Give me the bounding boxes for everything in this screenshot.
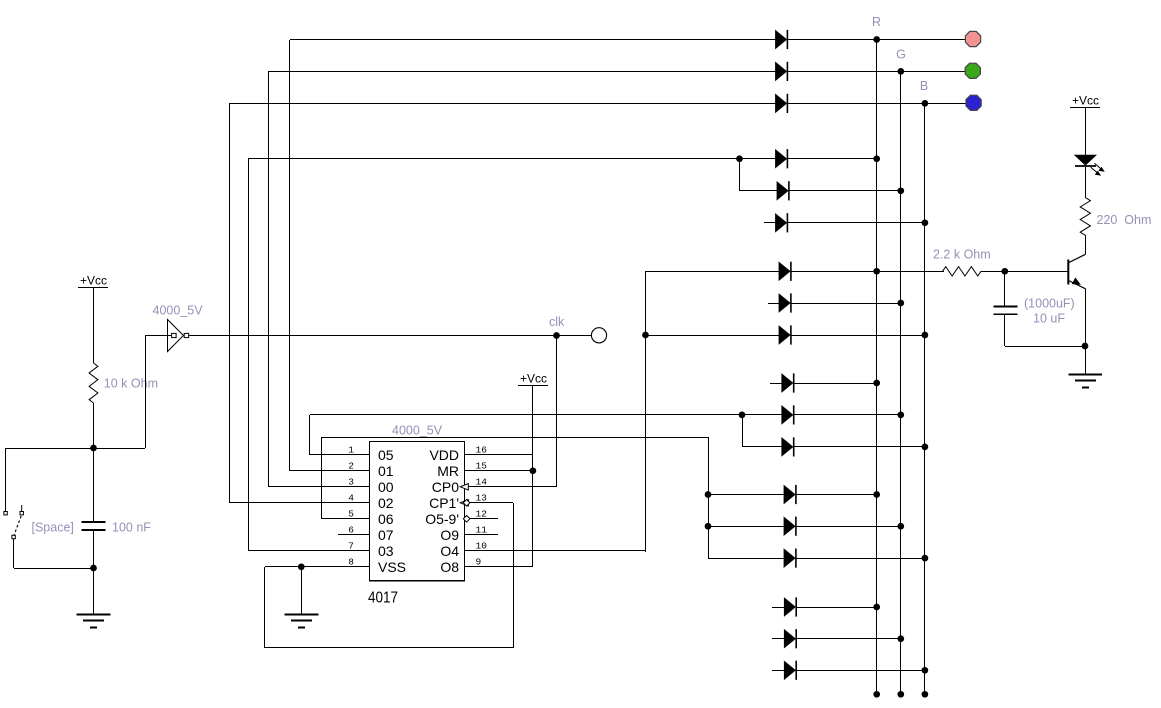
pin 12 O5-9 diamond (463, 516, 470, 523)
svg-text:CP1': CP1' (429, 495, 459, 511)
pin 15 stub (MR) (437, 461, 533, 480)
pin 10 stub (O4) (440, 541, 646, 560)
svg-text:7: 7 (348, 541, 354, 552)
node bus G junction (897, 691, 904, 698)
wire bus R vertical (876, 40, 878, 694)
diode D16 (784, 597, 796, 616)
svg-text:07: 07 (378, 527, 394, 543)
ground (4017 VSS) (285, 615, 319, 628)
svg-text:4: 4 (348, 493, 354, 504)
svg-text:CP0: CP0 (432, 479, 459, 495)
node VSS ground junction (298, 563, 305, 614)
svg-text:4000_5V: 4000_5V (153, 304, 204, 318)
node bus G junction (897, 68, 904, 75)
wire diode D16 anode tail (772, 607, 784, 609)
node A (RC junction) (90, 445, 97, 452)
svg-text:2.2 k Ohm: 2.2 k Ohm (933, 248, 991, 262)
clk open terminal (591, 328, 606, 343)
ground (emitter) (1069, 375, 1103, 388)
node bus R junction (873, 268, 880, 275)
diode D14 (784, 517, 796, 536)
wire diode D14 cathode to bus (796, 526, 901, 528)
svg-text:06: 06 (378, 511, 394, 527)
node bus B junction (922, 691, 929, 698)
node row14 branch (705, 523, 784, 530)
node MR junction (pin 15) (530, 467, 537, 474)
wire switch to node B (14, 539, 95, 569)
svg-text:+Vcc: +Vcc (520, 372, 547, 386)
wire node A to switch (6, 448, 95, 512)
node row4 branch (736, 155, 777, 191)
svg-text:10 k Ohm: 10 k Ohm (104, 377, 158, 391)
wire diode D13 cathode to bus (796, 494, 877, 496)
svg-text:220 Ohm: 220 Ohm (1097, 213, 1152, 227)
svg-text:8: 8 (348, 557, 354, 568)
wire clk to CP0 (pin 14) (556, 336, 558, 487)
svg-text:VSS: VSS (378, 559, 406, 575)
wire O0 bus: pin 3 to diode row 2 (268, 71, 776, 487)
terminal R (pink LED output) (965, 31, 980, 46)
node base junction (1001, 268, 1008, 275)
switch S1 [Space] (4, 505, 74, 539)
pin 1 stub (05) (338, 445, 394, 464)
LED D19 (1075, 155, 1104, 175)
diode D7 (779, 262, 791, 281)
wire diode D4 cathode to bus (788, 158, 877, 160)
pin 7 stub (03) (338, 541, 394, 560)
diode D18 (784, 661, 796, 680)
svg-text:11: 11 (476, 525, 488, 536)
node bus B junction (922, 332, 929, 339)
terminal B (blue LED output) (966, 95, 981, 110)
pin 2 stub (01) (338, 461, 394, 480)
svg-text:4017: 4017 (368, 590, 398, 607)
diode D5 (777, 181, 789, 200)
node bus B junction (922, 555, 929, 562)
diode D11 (782, 405, 794, 424)
pin 3 stub (00) (338, 477, 394, 496)
diode D17 (784, 629, 796, 648)
svg-text:MR: MR (437, 463, 459, 479)
pin 8 stub (VSS) (338, 557, 406, 576)
capacitor C2 10 uF (994, 271, 1086, 347)
power +Vcc (left) (78, 274, 108, 364)
svg-text:B: B (920, 79, 928, 93)
wire R2 to base node (981, 271, 1005, 273)
wire diode D8 cathode to bus (791, 303, 901, 305)
wire diode D10 anode tail (770, 383, 782, 385)
pin 16 stub (VDD) (429, 445, 533, 464)
wire diode D16 cathode to bus (797, 607, 877, 609)
svg-text:VDD: VDD (429, 447, 459, 463)
svg-text:O4: O4 (440, 543, 459, 559)
wire O5 route: pin 1 to diode row 11 (310, 415, 783, 456)
wire diode D17 cathode to bus (797, 638, 901, 640)
node bus B junction (922, 667, 929, 674)
diode D12 (782, 437, 794, 456)
wire diode D17 anode tail (772, 638, 784, 640)
svg-text:O8: O8 (440, 559, 459, 575)
node bus R junction (873, 491, 880, 498)
svg-text:00: 00 (378, 479, 394, 495)
svg-text:clk: clk (549, 315, 565, 329)
power +Vcc (4017 VDD) (518, 372, 548, 568)
capacitor C1 100 nF (82, 448, 152, 568)
svg-text:10 uF: 10 uF (1033, 312, 1065, 326)
node E (emitter/ground junction) (1082, 343, 1089, 374)
svg-text:5: 5 (348, 509, 354, 520)
diode D2 (776, 62, 788, 81)
pin 13 CP1 clock-input arrow + diamond (460, 500, 470, 507)
diode D10 (782, 373, 794, 392)
wire diode D18 cathode to bus (797, 670, 925, 672)
pin 5 stub (06) (338, 509, 394, 528)
node row11 branch (739, 412, 782, 447)
wire diode D9 cathode to bus (791, 335, 925, 337)
svg-text:O5-9': O5-9' (425, 511, 459, 527)
diode D6 (776, 213, 788, 232)
node row9 branch (642, 332, 779, 339)
svg-text:(1000uF): (1000uF) (1024, 297, 1075, 311)
wire node A to inverter input (94, 336, 172, 449)
pin 11 stub (O9) (440, 525, 498, 544)
wire Q1 collector to R3 (1085, 235, 1087, 254)
node bus G junction (897, 523, 904, 530)
pin 13 stub (CP1') (429, 493, 513, 512)
pin 6 stub (07) (338, 525, 394, 544)
wire diode D12 cathode to bus (794, 446, 925, 448)
node bus B junction (922, 100, 929, 107)
wire diode D5 cathode to bus (789, 190, 901, 192)
svg-text:4000_5V: 4000_5V (392, 424, 443, 438)
diode D9 (779, 325, 791, 344)
wire R3 to LED cathode (1085, 167, 1087, 198)
pin 9 stub (O8) (440, 557, 533, 576)
node bus G junction (897, 300, 904, 307)
node bus R junction (873, 36, 880, 43)
wire clk net: gate output to clk terminal (189, 335, 591, 337)
svg-text:[Space]: [Space] (32, 521, 74, 535)
pin 4 stub (02) (338, 493, 394, 512)
svg-text:01: 01 (378, 463, 394, 479)
svg-text:13: 13 (476, 493, 488, 504)
wire bus B vertical (924, 103, 926, 694)
op-amp/inverter U2 4000_5V (schmitt buffer) (153, 304, 204, 352)
svg-text:9: 9 (476, 557, 482, 568)
wire O3 bus: pin 7 to diode row 4 (248, 159, 776, 552)
svg-text:100 nF: 100 nF (112, 521, 151, 535)
transistor Q1 NPN (1068, 254, 1085, 288)
wire diode D18 anode tail (772, 670, 784, 672)
svg-text:15: 15 (476, 461, 488, 472)
pin 14 CP0 clock-input arrow (460, 484, 468, 490)
IC U1 4017 decade counter body (368, 424, 465, 607)
node clk junction (549, 315, 565, 339)
wire +Vcc to LED anode (1085, 108, 1087, 155)
svg-text:05: 05 (378, 447, 394, 463)
svg-text:02: 02 (378, 495, 394, 511)
node bus R junction (873, 380, 880, 387)
ground (left RC) (77, 615, 111, 628)
wire node B to ground (93, 568, 95, 614)
node bus R junction (873, 604, 880, 611)
svg-text:03: 03 (378, 543, 394, 559)
wire R1 to node A (93, 403, 95, 448)
wire diode D6 cathode to bus (788, 222, 925, 224)
svg-text:G: G (896, 48, 906, 62)
svg-text:O9: O9 (440, 527, 459, 543)
node B (cap bottom) (90, 565, 97, 572)
diode D4 (776, 149, 788, 168)
node bus R junction (873, 155, 880, 162)
wire diode D7 cathode to bus (791, 271, 944, 273)
svg-text:2: 2 (348, 461, 354, 472)
node R label (872, 15, 881, 29)
diode D15 (784, 549, 796, 568)
node bus G junction (897, 635, 904, 642)
wire diode D11 cathode to bus (794, 414, 901, 416)
wire O2 bus: pin 4 to diode row 3 (230, 103, 777, 503)
svg-text:1: 1 (348, 445, 354, 456)
wire VSS loop: pin 8 to ground and CP1 (265, 503, 514, 648)
svg-text:3: 3 (348, 477, 354, 488)
wire O1 bus: pin 2 to diode row 1 (290, 40, 777, 472)
wire bus G vertical (900, 71, 902, 694)
wire diode D6 anode tail (764, 222, 776, 224)
wire O4 route: pin 10 to rows 7/9 (646, 271, 780, 552)
terminal G (green LED output) (965, 63, 980, 78)
diode D3 (776, 94, 788, 113)
node bus B junction (922, 219, 929, 226)
node B label (920, 79, 928, 93)
wire diode D1 cathode to bus (788, 39, 966, 41)
power +Vcc (LED supply) (1070, 94, 1100, 108)
svg-text:+Vcc: +Vcc (80, 274, 107, 288)
node bus R junction (873, 691, 880, 698)
wire O6 route: pin 5 to rows 13-15 (322, 437, 709, 558)
svg-text:16: 16 (476, 445, 488, 456)
wire diode D8 anode tail (768, 303, 779, 305)
diode D1 (776, 30, 788, 49)
pin 12 stub (O5-9') (425, 509, 498, 528)
svg-text:+Vcc: +Vcc (1072, 94, 1099, 108)
resistor R1 10 k Ohm (89, 363, 158, 403)
wire diode D3 cathode to bus (788, 103, 966, 105)
wire diode D2 cathode to bus (788, 71, 966, 73)
resistor R2 2.2 k Ohm (933, 248, 991, 277)
wire row15 branch (708, 558, 784, 560)
wire diode D15 cathode to bus (796, 558, 925, 560)
svg-text:14: 14 (476, 477, 488, 488)
pin 14 stub (CP0) (432, 477, 556, 496)
node bus G junction (897, 187, 904, 194)
wire diode D10 cathode to bus (794, 383, 877, 385)
diode D13 (784, 485, 796, 504)
node row13 branch (705, 491, 784, 498)
wire Q1 emitter to node E (1085, 289, 1087, 346)
svg-text:6: 6 (348, 525, 354, 536)
svg-text:12: 12 (476, 509, 488, 520)
diode D8 (779, 293, 791, 312)
node G label (896, 48, 906, 62)
svg-text:10: 10 (476, 541, 488, 552)
node bus B junction (922, 444, 929, 451)
resistor R3 220 Ohm (1080, 198, 1151, 236)
svg-text:R: R (872, 15, 881, 29)
node bus G junction (897, 412, 904, 419)
wire base node to Q1 base (1005, 271, 1068, 273)
